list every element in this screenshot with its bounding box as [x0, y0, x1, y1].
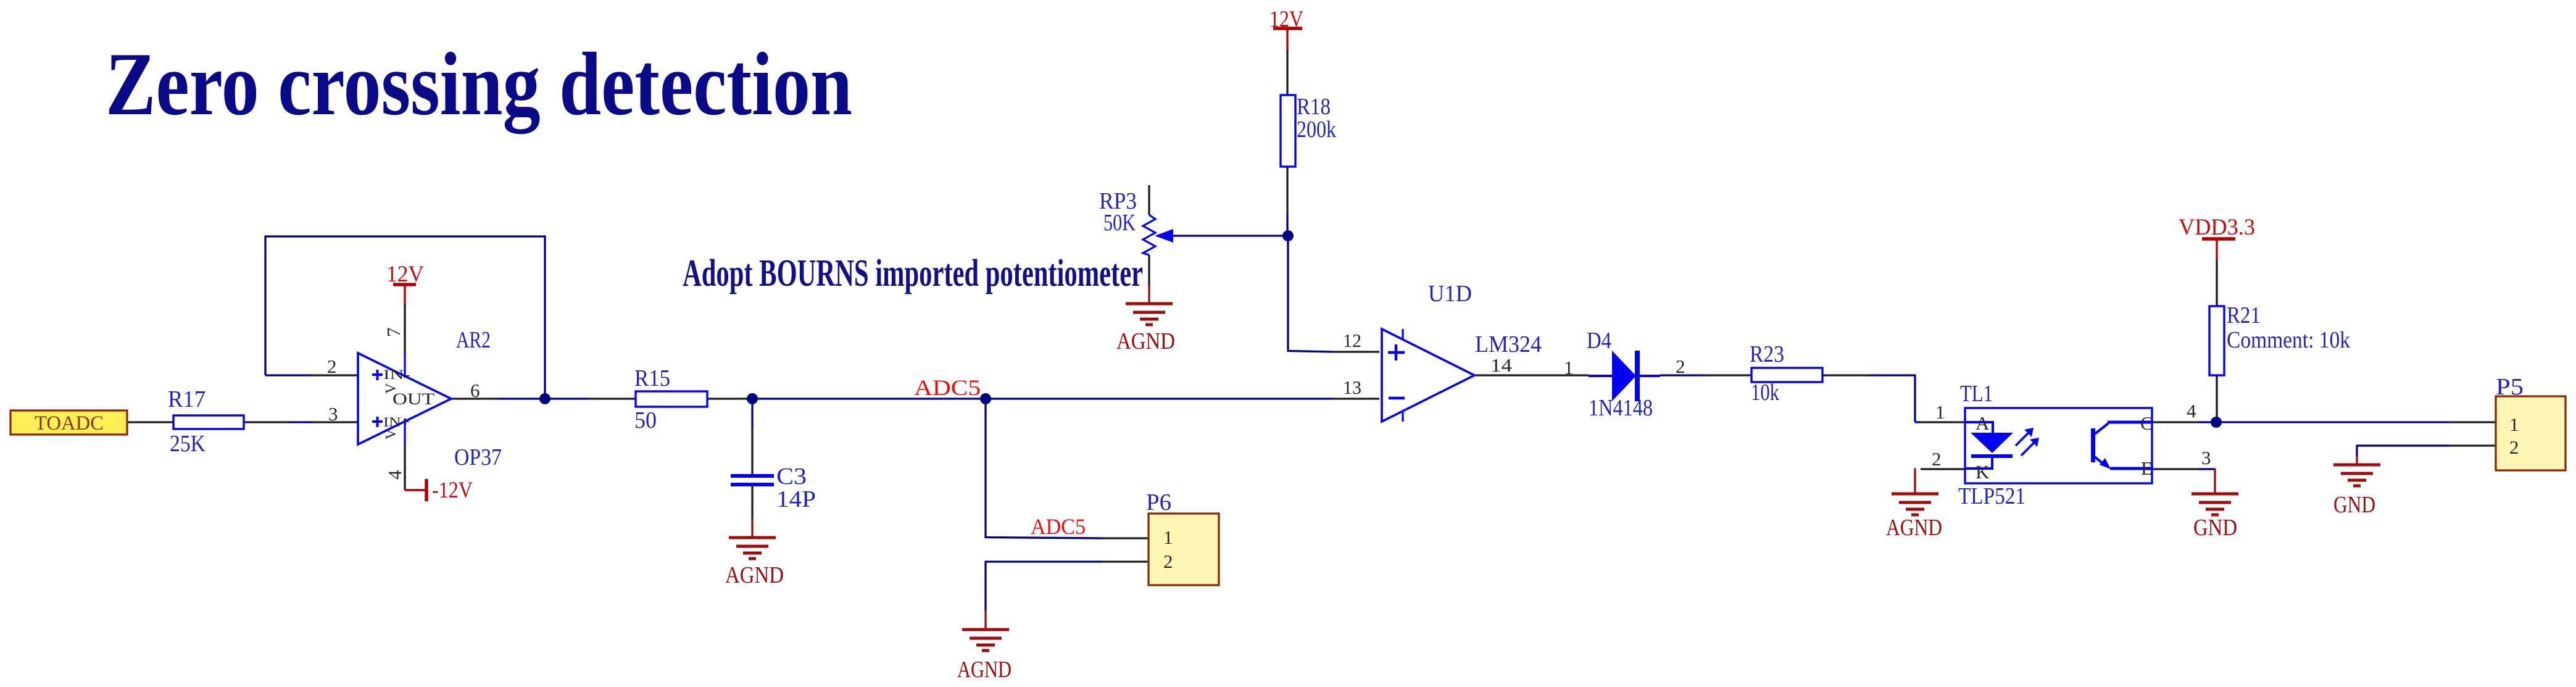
- svg-text:-12V: -12V: [432, 478, 473, 503]
- svg-text:IN+: IN+: [383, 414, 410, 430]
- svg-text:ADC5: ADC5: [1031, 514, 1086, 539]
- svg-text:3: 3: [328, 403, 338, 425]
- svg-text:1: 1: [2509, 414, 2519, 435]
- svg-text:R21: R21: [2227, 302, 2261, 328]
- svg-text:OP37: OP37: [454, 444, 502, 470]
- svg-text:E: E: [2141, 457, 2153, 479]
- svg-text:7: 7: [383, 328, 404, 338]
- svg-text:2: 2: [1163, 551, 1173, 572]
- svg-text:50: 50: [634, 407, 657, 433]
- svg-text:1N4148: 1N4148: [1589, 395, 1653, 421]
- svg-text:TL1: TL1: [1960, 381, 1993, 407]
- svg-text:AGND: AGND: [1116, 328, 1175, 354]
- svg-text:AR2: AR2: [456, 327, 491, 353]
- svg-text:IN-: IN-: [383, 367, 410, 382]
- svg-text:2: 2: [1676, 356, 1685, 377]
- svg-text:2: 2: [327, 356, 337, 377]
- svg-text:A: A: [1976, 412, 1990, 434]
- svg-text:R18: R18: [1297, 94, 1331, 120]
- svg-text:Comment: 10k: Comment: 10k: [2227, 327, 2350, 353]
- svg-text:C: C: [2140, 412, 2153, 434]
- svg-text:GND: GND: [2333, 492, 2375, 518]
- svg-text:1: 1: [1935, 401, 1945, 423]
- svg-text:13: 13: [1343, 377, 1361, 398]
- svg-text:R23: R23: [1750, 341, 1784, 367]
- svg-text:TLP521: TLP521: [1958, 483, 2025, 509]
- svg-text:U1D: U1D: [1428, 281, 1472, 307]
- svg-text:AGND: AGND: [957, 657, 1012, 683]
- svg-text:6: 6: [470, 380, 480, 401]
- svg-text:12V: 12V: [1269, 7, 1303, 32]
- svg-text:VDD3.3: VDD3.3: [2179, 215, 2255, 240]
- svg-text:14P: 14P: [776, 486, 816, 512]
- svg-text:TOADC: TOADC: [35, 412, 104, 435]
- svg-text:GND: GND: [2193, 515, 2237, 541]
- svg-text:14: 14: [1490, 354, 1513, 376]
- svg-text:1: 1: [1163, 527, 1173, 548]
- svg-text:AGND: AGND: [725, 562, 784, 588]
- svg-text:K: K: [1976, 461, 1990, 483]
- svg-text:12: 12: [1343, 330, 1361, 351]
- svg-text:Adopt BOURNS imported potentio: Adopt BOURNS imported potentiometer: [683, 252, 1143, 294]
- svg-text:R15: R15: [634, 365, 670, 391]
- svg-text:D4: D4: [1587, 328, 1611, 354]
- svg-text:10k: 10k: [1751, 380, 1779, 406]
- svg-text:R17: R17: [168, 386, 206, 412]
- svg-text:ADC5: ADC5: [914, 375, 981, 400]
- svg-text:C3: C3: [776, 464, 807, 489]
- svg-text:2: 2: [2509, 436, 2519, 458]
- svg-text:P5: P5: [2496, 374, 2524, 400]
- svg-text:200k: 200k: [1297, 117, 1336, 143]
- svg-text:V: V: [383, 383, 399, 394]
- svg-text:P6: P6: [1146, 489, 1171, 515]
- svg-text:2: 2: [1932, 448, 1942, 470]
- svg-text:AGND: AGND: [1886, 515, 1942, 541]
- svg-text:1: 1: [1564, 357, 1574, 378]
- svg-text:LM324: LM324: [1475, 331, 1542, 357]
- svg-text:50K: 50K: [1103, 210, 1136, 236]
- svg-text:V: V: [383, 428, 399, 439]
- svg-text:4: 4: [384, 470, 405, 480]
- svg-text:25K: 25K: [170, 431, 206, 457]
- svg-text:Zero crossing detection: Zero crossing detection: [106, 34, 852, 134]
- svg-text:12V: 12V: [386, 262, 424, 287]
- svg-text:3: 3: [2201, 447, 2211, 468]
- svg-text:4: 4: [2187, 400, 2196, 422]
